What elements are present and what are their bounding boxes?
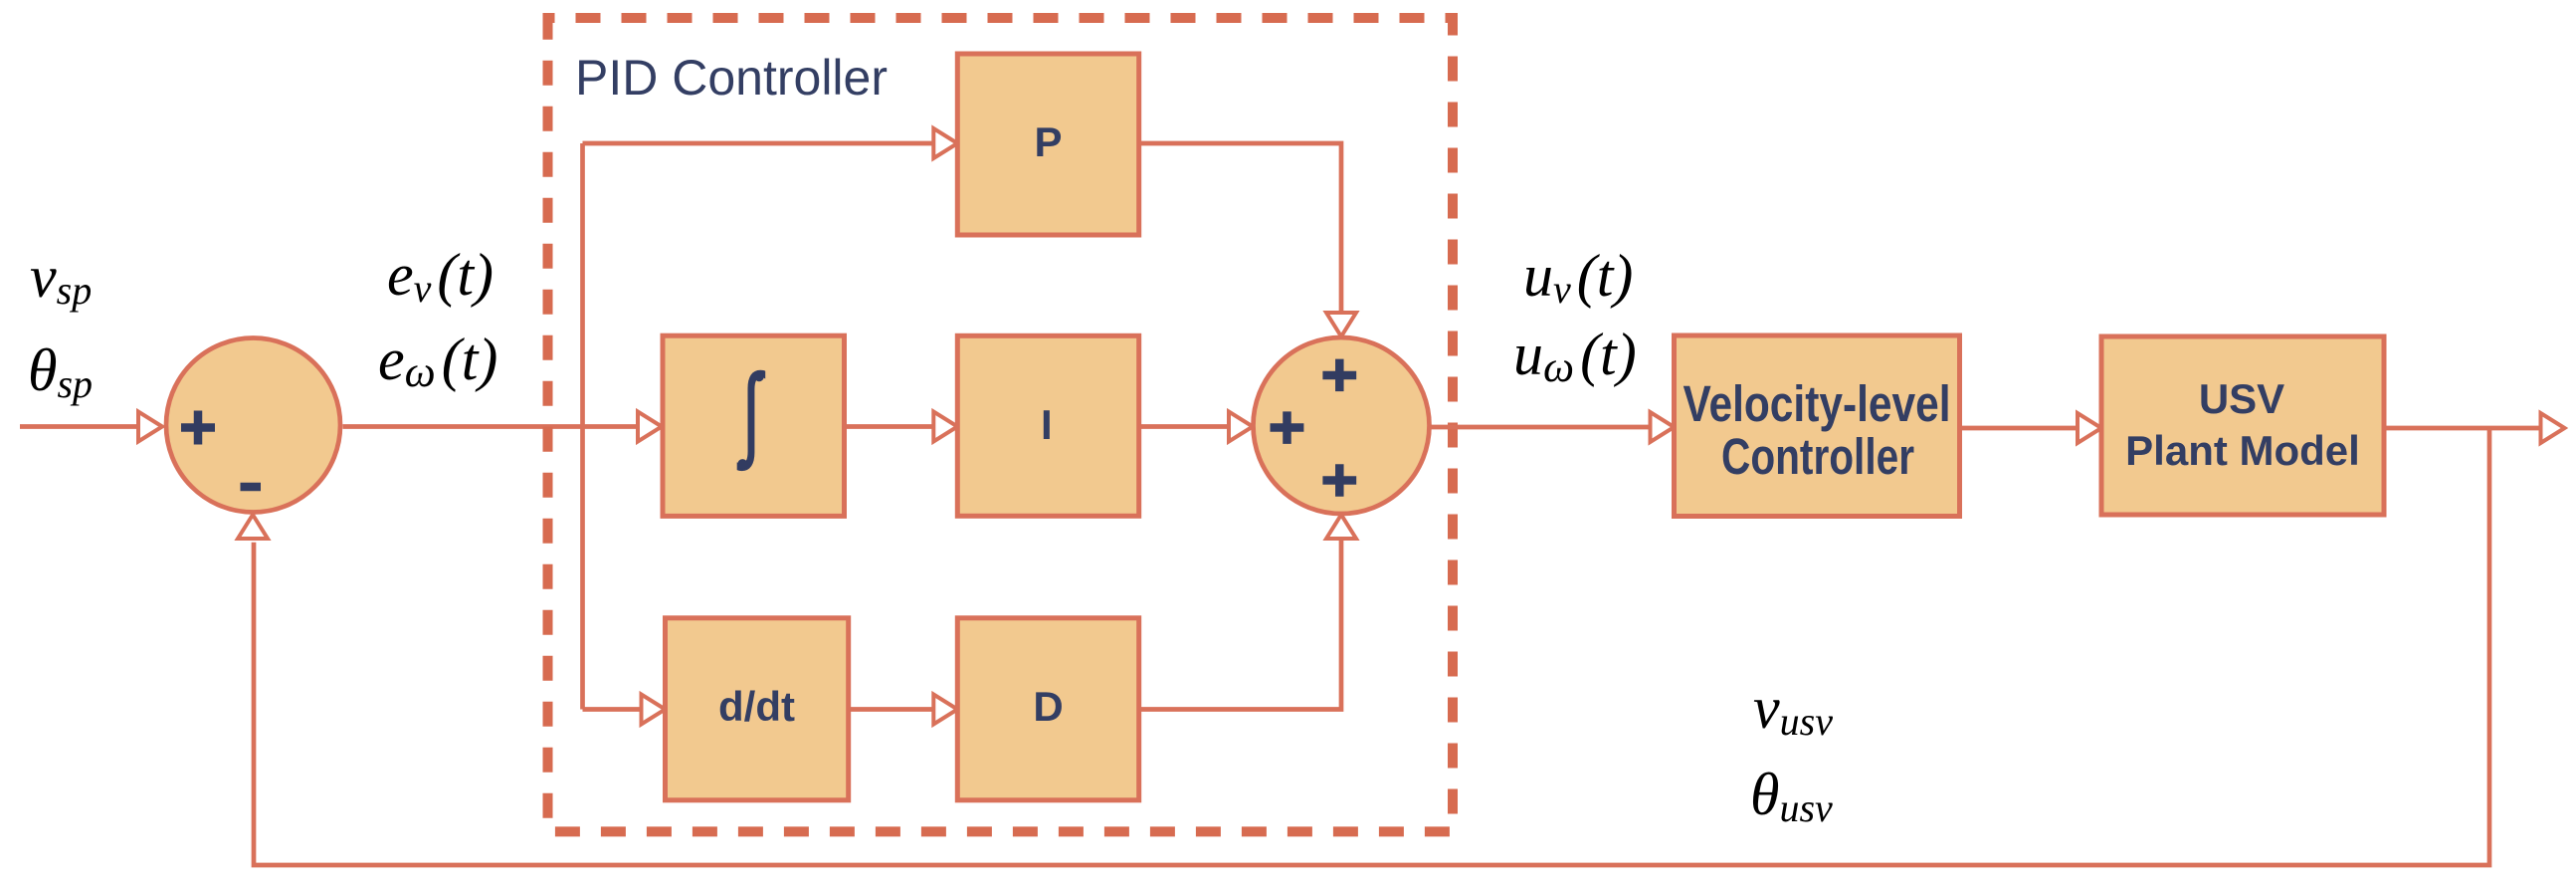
dashed PID controller boundary box xyxy=(548,18,1454,831)
wire branch vertical inside PID box xyxy=(580,143,585,710)
block P xyxy=(957,54,1138,235)
node uw(t) label xyxy=(1513,322,1637,391)
wire feedback arrow into S1 xyxy=(238,515,268,539)
summing junction S1 xyxy=(166,338,340,513)
node vusv label xyxy=(1753,675,1833,744)
wire P output to summing junction S2 xyxy=(1139,143,1356,336)
wire USV output with junction xyxy=(2384,413,2565,443)
wire integrator to I block xyxy=(845,412,958,442)
wire I to summing junction S2 xyxy=(1139,412,1253,442)
svg-text:uv(t): uv(t) xyxy=(1523,243,1633,312)
node vsp label xyxy=(30,244,92,313)
svg-text:P: P xyxy=(1034,118,1062,165)
svg-text:USV: USV xyxy=(2199,375,2284,422)
block velocity-level controller xyxy=(1675,335,1960,517)
node thetasp label xyxy=(28,337,93,406)
svg-text:Plant Model: Plant Model xyxy=(2125,427,2360,474)
PID Controller title xyxy=(575,50,888,106)
wire branch to d/dt block xyxy=(583,695,666,725)
svg-text:ev(t): ev(t) xyxy=(387,242,494,311)
node ew(t) label xyxy=(378,327,497,396)
wire feedback path xyxy=(254,428,2489,865)
wire D output to summing junction S2 xyxy=(1139,515,1356,710)
block I xyxy=(957,335,1138,516)
node thetausv label xyxy=(1750,762,1833,830)
wire velocity controller to USV plant xyxy=(1960,413,2102,443)
block D xyxy=(957,618,1138,800)
block d/dt xyxy=(666,618,849,800)
svg-text:PID Controller: PID Controller xyxy=(575,50,888,106)
svg-text:d/dt: d/dt xyxy=(718,683,795,730)
svg-text:D: D xyxy=(1033,683,1063,730)
summing junction S2 xyxy=(1254,337,1430,514)
block USV plant model xyxy=(2101,336,2384,515)
wire branch to P block xyxy=(583,128,958,158)
svg-text:Controller: Controller xyxy=(1721,428,1914,485)
wire S1 to integrator with branch node xyxy=(343,412,663,442)
svg-text:Velocity-level: Velocity-level xyxy=(1684,375,1951,432)
node uv(t) label xyxy=(1523,243,1633,312)
wire d/dt to D block xyxy=(849,695,958,725)
svg-text:I: I xyxy=(1041,401,1053,448)
wire S2 to velocity controller xyxy=(1430,412,1675,442)
block integrator xyxy=(663,335,845,516)
wire input to summing junction xyxy=(20,412,162,442)
node ev(t) label xyxy=(387,242,494,311)
